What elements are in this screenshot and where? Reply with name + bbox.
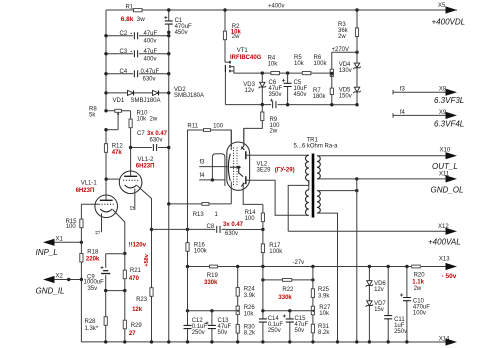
svg-text:3.9k: 3.9k [318,293,330,299]
svg-text:27: 27 [129,331,136,337]
resistor R10 [130,111,132,148]
svg-text:10k: 10k [294,61,305,67]
terminal X14 [446,338,458,345]
svg-text:6.3VF4L: 6.3VF4L [434,120,464,129]
capacitor C6 series [225,104,271,106]
node A left rail [105,10,107,111]
svg-text:1.1k: 1.1k [412,279,424,285]
TR1 primary upper [306,155,309,185]
svg-text:INP_L: INP_L [36,248,58,257]
resistor chain R24 [237,267,239,342]
wire R21 bottom [106,290,125,292]
svg-text:X10: X10 [440,148,451,154]
svg-text:100k: 100k [269,249,283,255]
resistor R13 [169,203,202,205]
svg-text:IRFIBC40G: IRFIBC40G [230,55,262,61]
capacitor C8 [150,228,153,231]
resistor R22 [263,279,282,281]
svg-text:630v: 630v [225,231,238,237]
svg-text:R17: R17 [269,243,281,249]
resistor R12 [104,144,107,153]
svg-text:f4: f4 [400,110,406,116]
resistor R6 [331,52,333,73]
svg-text:350v: 350v [269,92,282,98]
wire VL1-1 plate to VL1-2 grid [105,177,108,180]
svg-text:(ГУ-29): (ГУ-29) [275,168,295,174]
svg-text:R12: R12 [112,144,124,150]
zener VD3 [261,73,263,105]
potentiometer R8 [106,110,131,112]
svg-text:400v: 400v [144,39,157,45]
svg-text:R30: R30 [244,324,256,330]
svg-text:2w: 2w [270,129,278,135]
svg-text:3.9k: 3.9k [244,293,256,299]
svg-text:0.47uF: 0.47uF [141,69,160,75]
svg-text:100k: 100k [194,249,208,255]
grid g2 line [243,128,245,131]
zener VD7 [367,301,372,306]
svg-text:X1: X1 [56,236,64,242]
wire GND_OL vertical [356,179,358,342]
resistor R30 [236,325,239,334]
svg-text:450v: 450v [175,30,188,36]
svg-text:3x 0.47: 3x 0.47 [223,222,244,228]
wire secondary mid to gnd [317,178,357,180]
svg-text:400v: 400v [144,57,157,63]
capacitor C7 [131,147,152,149]
wire C12 C13 branch [188,310,237,312]
svg-text:50v: 50v [295,328,305,334]
svg-text:12v: 12v [374,287,384,293]
svg-text:f2: f2 [130,206,136,210]
capacitor C13 [211,311,213,342]
heater arc [228,154,230,181]
diode VD1 [106,92,169,94]
wire VL1-2 cathode [137,186,152,230]
svg-text:VL1-2: VL1-2 [138,157,155,163]
svg-text:X9: X9 [439,110,447,116]
svg-text:8.2k: 8.2k [318,330,330,336]
svg-text:R13: R13 [193,212,205,218]
wire heater hook [212,154,225,186]
capacitor C5 [287,73,289,105]
resistor R15 [80,204,82,242]
resistor chain R25 [312,267,314,342]
node B rail [168,10,170,21]
capacitor C11 [387,267,389,342]
capacitor C4 [106,73,133,75]
svg-text:- 50v: - 50v [442,273,457,280]
svg-text:X8: X8 [439,87,447,93]
resistor R23 [151,229,153,342]
resistor R4 [271,72,280,75]
svg-text:220k: 220k [86,257,100,263]
terminal X5 +400VDL [446,6,458,13]
svg-text:100: 100 [245,216,256,222]
svg-text:VL1-1: VL1-1 [81,181,98,187]
svg-text:+58v: +58v [144,253,150,266]
svg-text:330k: 330k [278,295,292,301]
svg-text:3x 0.47: 3x 0.47 [147,131,168,137]
svg-text:450v: 450v [294,92,307,98]
svg-text:1000uF: 1000uF [84,280,105,286]
resistor R5 [302,72,311,75]
svg-text:6.3VF3L: 6.3VF3L [434,96,464,105]
wire C15 branch [263,310,311,312]
svg-text:R26: R26 [244,305,256,311]
svg-text:R28: R28 [85,319,97,325]
svg-text:VD6: VD6 [374,281,386,287]
svg-text:R18: R18 [87,250,99,256]
svg-text:+400VDL: +400VDL [432,18,466,27]
svg-text:2w: 2w [150,117,158,123]
inner grid dashes [233,148,235,187]
capacitor C12 [187,267,189,342]
terminal X1 INP_L [54,241,81,243]
svg-text:X11: X11 [439,171,450,177]
resistor R7 [331,74,333,105]
resistor R9 [244,105,262,147]
resistor R19 [210,265,218,268]
terminal X11 GND_OL [357,178,446,180]
svg-text:12k: 12k [132,307,143,313]
svg-text:+400v: +400v [268,4,285,10]
anode a1 [245,151,247,159]
svg-text:47uF: 47uF [144,31,158,37]
grid g1 line [230,130,232,150]
svg-text:330k: 330k [204,280,218,286]
wire -27v rail [188,266,210,268]
svg-text:5...6 kOhm Ra-a: 5...6 kOhm Ra-a [294,143,339,149]
svg-text:VD1: VD1 [113,98,125,104]
svg-text:VT1: VT1 [237,48,249,54]
terminal X8 6.3VF3L [393,91,446,93]
svg-text:10k: 10k [244,311,255,317]
svg-text:10k: 10k [319,311,330,317]
wire secondary bottom [317,213,338,342]
svg-text:100k: 100k [314,61,328,67]
svg-text:150v: 150v [339,93,352,99]
svg-text:X2: X2 [56,274,64,280]
resistor R28 [104,317,107,326]
svg-text:100v: 100v [413,310,426,316]
svg-text:1.3k*: 1.3k* [85,326,99,332]
svg-text:35v: 35v [88,286,98,292]
svg-text:3w: 3w [137,16,146,23]
svg-text:GND_IL: GND_IL [36,287,65,296]
svg-text:f3: f3 [200,160,206,166]
zener VD5 [356,87,358,105]
wire +400v top rail [106,9,457,11]
beam plates [241,147,244,187]
resistor R31 [311,324,314,333]
svg-text:R21: R21 [130,268,142,274]
svg-text:250v: 250v [268,328,281,334]
svg-text:15v: 15v [374,307,384,313]
zener VD4 [356,52,358,87]
svg-text:12v: 12v [245,88,255,94]
capacitor C1 [165,21,173,23]
resistor R29 [124,291,126,342]
resistor R17 [262,230,264,267]
terminal X12 +400VAL [288,230,446,232]
TR1 secondary lower [317,191,320,213]
svg-text:R22: R22 [282,287,294,293]
svg-text:2w: 2w [338,34,346,40]
terminal X10 OUT_L [317,155,446,157]
TR1 primary lower [306,190,309,216]
svg-text:130v: 130v [339,68,352,74]
terminal X2 GND_IL [54,279,81,281]
svg-text:R16: R16 [194,243,206,249]
svg-text:X13: X13 [439,257,450,263]
TR1 secondary upper [317,156,320,179]
svg-text:2w: 2w [414,286,422,292]
svg-text:f3: f3 [400,87,406,93]
capacitor C10 [406,267,408,342]
svg-text:47uF: 47uF [144,49,158,55]
svg-text:R19: R19 [207,273,219,279]
resistor R18 [80,242,82,279]
svg-text:-27v: -27v [293,260,305,266]
svg-text:180k: 180k [313,94,327,100]
zener VD6 [368,267,370,342]
svg-text:50v: 50v [218,330,228,336]
svg-text:C3: C3 [120,49,128,55]
svg-text:R27: R27 [319,305,331,311]
svg-text:!!120v: !!120v [129,243,147,249]
svg-text:8.2k: 8.2k [244,331,256,337]
svg-text:C4: C4 [120,69,128,75]
svg-text:+270V: +270V [332,47,350,53]
svg-text:R1: R1 [126,5,134,11]
resistor R11 [188,130,205,140]
potentiometer R26 [236,306,239,315]
svg-text:R31: R31 [318,324,330,330]
svg-text:100: 100 [66,224,77,230]
svg-text:47k: 47k [112,150,123,156]
resistor R14 [262,204,264,229]
wire source node [262,72,332,74]
resistor R1 [134,9,143,12]
capacitor C2 [131,33,132,34]
svg-text:250v: 250v [394,329,407,335]
svg-text:+400VAL: +400VAL [428,238,461,247]
svg-text:VD7: VD7 [374,301,386,307]
svg-text:R23: R23 [136,297,148,303]
svg-text:X14: X14 [439,336,450,342]
svg-text:SMBJ180A: SMBJ180A [131,98,161,104]
terminal X13 -50v [446,263,458,270]
svg-text:10k: 10k [137,117,148,123]
svg-text:6Н23П: 6Н23П [76,188,95,194]
diode VD2 [153,90,159,95]
svg-text:250v: 250v [192,330,205,336]
svg-text:f4: f4 [200,173,206,179]
potentiometer R27 [311,306,314,315]
TR1 core [312,154,315,218]
node C1 bottom junction [167,8,170,11]
svg-text:R24: R24 [244,287,256,293]
capacitor C9 [101,271,110,274]
svg-text:X12: X12 [438,224,449,230]
wire bottom rail [81,341,446,343]
wire cathode to C9 branch [123,252,126,255]
svg-text:C2: C2 [120,31,128,37]
terminal X9 6.3VF4L [393,114,446,116]
svg-text:5k: 5k [89,113,96,119]
svg-text:R29: R29 [131,323,143,329]
svg-text:R20: R20 [414,272,426,278]
wire VL1-1 cathode [113,210,125,254]
heater stub f2 [134,189,136,211]
svg-text:1uF: 1uF [394,323,405,329]
wire +270V node [332,51,357,53]
wire R17 line down / C14 [262,267,264,342]
svg-text:6.8k: 6.8k [121,16,134,23]
svg-text:C7: C7 [137,131,145,137]
resistor R21 [124,254,126,291]
wire TR1 center tap [288,185,309,231]
svg-text:470: 470 [129,276,140,282]
svg-text:630v: 630v [143,77,156,83]
resistor R2 [224,10,226,62]
cathode bar [230,166,241,168]
resistor R3 [356,10,358,52]
svg-text:X5: X5 [438,3,446,9]
svg-text:f1: f1 [96,230,102,234]
svg-text:GND_OL: GND_OL [431,186,464,195]
svg-text:630v: 630v [150,138,163,144]
svg-text:2w: 2w [232,34,240,40]
svg-text:100: 100 [213,123,224,129]
svg-text:R25: R25 [318,287,330,293]
svg-text:C8: C8 [207,224,215,230]
svg-text:SMBJ180A: SMBJ180A [174,93,204,99]
heater stub f1 [101,214,103,233]
resistor R20 [412,265,421,268]
svg-text:OUT_L: OUT_L [432,162,458,171]
svg-text:6Н23П: 6Н23П [136,163,155,169]
capacitor C3 [131,51,132,52]
anode a2 [245,176,247,184]
svg-text:R11: R11 [187,123,198,129]
resistor R16 [187,130,189,267]
svg-text:3E29: 3E29 [257,168,272,174]
svg-text:10k: 10k [268,61,279,67]
